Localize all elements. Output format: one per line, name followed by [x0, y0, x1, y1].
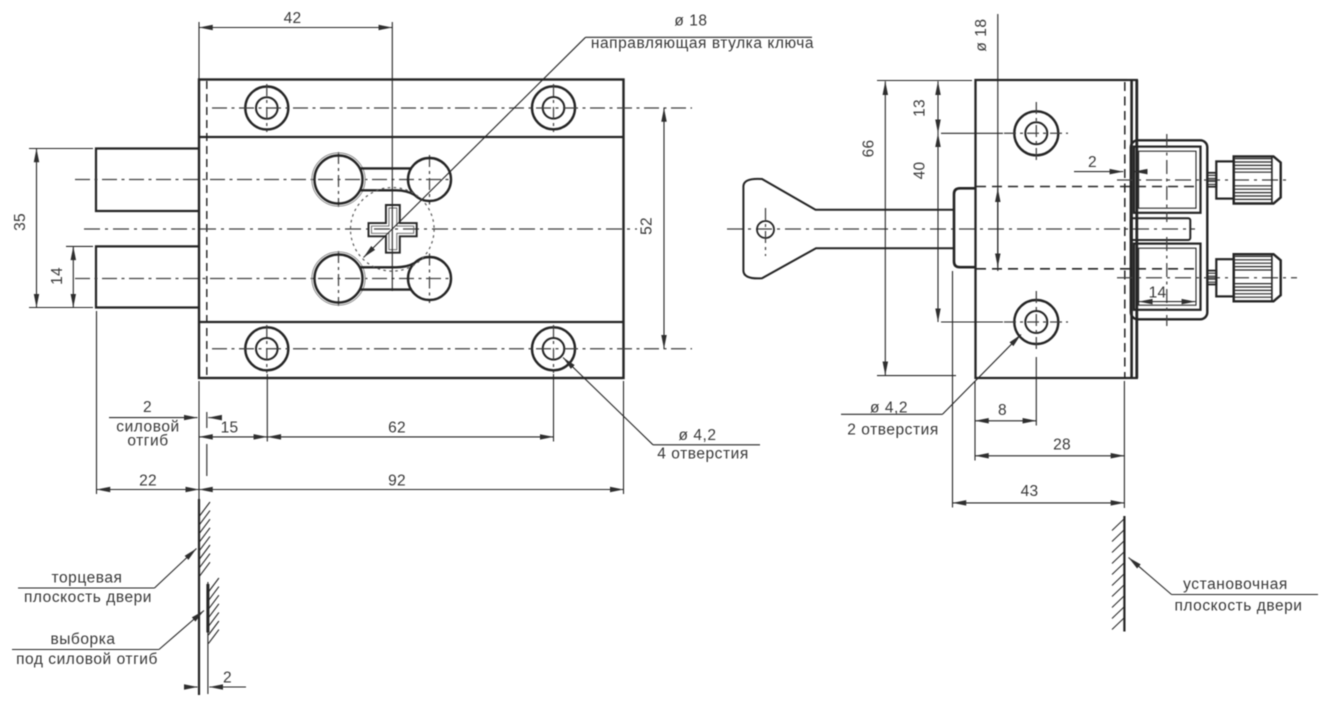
screw hole bottom-left: [245, 327, 288, 370]
knob neck: [1216, 259, 1233, 296]
dim 2 bottom: [185, 686, 198, 688]
upper lever left circle: [315, 156, 363, 204]
dim 8: [975, 420, 1036, 422]
leader ø4,2 4 отверстия: [563, 358, 653, 445]
centerline top holes: [212, 107, 692, 109]
svg-text:14: 14: [1149, 285, 1167, 302]
key hole: [757, 221, 774, 238]
svg-text:52: 52: [639, 217, 656, 235]
lock body outline: [199, 80, 624, 379]
cover frame around knobs: [1131, 140, 1208, 319]
svg-text:плоскость двери: плоскость двери: [24, 589, 152, 606]
knob neck: [1216, 161, 1233, 198]
knob knurled head: [1234, 254, 1281, 301]
svg-text:ø 4,2: ø 4,2: [870, 399, 908, 416]
svg-text:отгиб: отгиб: [127, 433, 168, 450]
svg-text:35: 35: [12, 213, 29, 231]
crosshair verticals lever circles: [339, 152, 430, 306]
upper knob block: [1134, 147, 1201, 213]
crosshair verticals screw holes: [267, 84, 554, 373]
bottom band line: [199, 321, 624, 323]
leader 2 силовой отгиб: [109, 417, 198, 419]
recess line (выборка): [207, 582, 209, 694]
recess hatching: [208, 578, 219, 644]
svg-text:установочная: установочная: [1183, 576, 1288, 593]
knob stem: [1208, 173, 1217, 187]
dim 28: [975, 455, 1124, 457]
leader торцевая плоскость двери: [155, 549, 197, 589]
hidden lines of bushing hole: [976, 186, 1194, 188]
svg-text:2: 2: [143, 399, 152, 416]
svg-text:4 отверстия: 4 отверстия: [657, 446, 749, 463]
screw hole top-left: [245, 87, 288, 130]
svg-text:22: 22: [139, 473, 157, 490]
svg-text:66: 66: [861, 140, 878, 158]
svg-text:62: 62: [388, 420, 406, 437]
dim 40: [937, 133, 939, 322]
lock plate outline: [976, 80, 1128, 378]
dim ø18 (bushing): [997, 14, 999, 271]
dim 62: [267, 436, 553, 438]
knob knurled head: [1234, 156, 1281, 203]
bolt tail tab: [1131, 218, 1191, 240]
svg-text:ø 18: ø 18: [674, 13, 707, 30]
screw hole bottom (side view): [1014, 300, 1058, 344]
svg-text:14: 14: [49, 267, 66, 285]
door end plane line: [198, 381, 200, 499]
keyhole cross inner: [372, 208, 414, 250]
screw hole bottom-right: [532, 327, 575, 370]
svg-text:13: 13: [912, 99, 929, 117]
svg-text:2: 2: [223, 670, 232, 687]
dim 92: [199, 489, 624, 491]
main centerline right view: [727, 228, 1195, 230]
dim 13: [937, 81, 939, 133]
svg-text:направляющая втулка ключа: направляющая втулка ключа: [591, 35, 814, 52]
lower bolt: [96, 246, 199, 307]
screw hole top-right: [532, 86, 575, 129]
bend line extension segments: [206, 412, 208, 428]
svg-text:40: 40: [912, 162, 929, 180]
svg-text:плоскость двери: плоскость двери: [1174, 598, 1302, 615]
knob stem: [1208, 271, 1217, 285]
dim 14: [72, 246, 74, 307]
lower bolt centerline: [75, 278, 452, 280]
lower lever arm: [359, 288, 412, 290]
screw hole top (side view): [1014, 111, 1058, 155]
svg-text:28: 28: [1053, 436, 1071, 453]
lower knob block: [1134, 244, 1201, 310]
upper lever arm: [359, 167, 412, 169]
top band line: [199, 136, 624, 138]
upper bolt centerline: [75, 179, 452, 181]
key bushing dotted circle ø18: [351, 188, 435, 272]
svg-text:торцевая: торцевая: [52, 570, 123, 587]
dim 66: [884, 81, 886, 375]
dim 52: [663, 108, 665, 349]
key outline: [743, 179, 954, 279]
svg-text:92: 92: [388, 473, 406, 490]
hidden plate edge dashed: [1124, 82, 1126, 377]
leader ø18 направляющая втулка ключа: [364, 37, 586, 257]
svg-text:ø 4,2: ø 4,2: [678, 427, 716, 444]
dim 43: [953, 502, 1125, 504]
knob centerlines: [1117, 179, 1288, 181]
dim 14: [1139, 301, 1196, 303]
leader установочная плоскость двери: [1129, 558, 1172, 595]
svg-text:42: 42: [284, 10, 302, 27]
centerline bottom holes: [212, 348, 692, 350]
svg-text:2: 2: [1088, 154, 1097, 171]
keyhole cross outer: [369, 205, 417, 253]
mounting plane wall line: [1123, 516, 1125, 632]
dim 35: [36, 149, 38, 308]
svg-text:15: 15: [221, 420, 239, 437]
hole crosshairs side view: [1004, 102, 1068, 353]
block centerline verticals: [1166, 134, 1168, 326]
dim 42: [199, 27, 392, 29]
svg-text:8: 8: [998, 402, 1007, 419]
upper lever right circle: [408, 158, 451, 201]
dim 2 (cover gap): [1074, 171, 1123, 173]
door end hatching: [200, 502, 211, 576]
upper bolt: [96, 149, 199, 212]
dim 15: [199, 436, 267, 438]
svg-text:ø 18: ø 18: [973, 18, 990, 51]
dim 22: [97, 489, 200, 491]
lower lever right circle: [408, 257, 451, 300]
extension lines bottom dims: [96, 311, 98, 494]
leader ø4,2 2 отверстия: [943, 335, 1022, 415]
lower lever left circle: [315, 255, 363, 303]
dashed bend line (силовой отгиб): [206, 81, 208, 376]
svg-text:43: 43: [1021, 483, 1039, 500]
key guide bushing: [954, 188, 976, 267]
wall hatching: [1112, 519, 1124, 630]
svg-text:выборка: выборка: [50, 631, 115, 648]
svg-text:под силовой отгиб: под силовой отгиб: [16, 651, 158, 668]
main centerline: [84, 228, 637, 230]
leader выборка под силовой отгиб: [159, 611, 204, 650]
extension line through cross: [391, 22, 393, 291]
cover bent edge double line: [1130, 80, 1133, 378]
svg-text:2 отверстия: 2 отверстия: [847, 422, 939, 439]
